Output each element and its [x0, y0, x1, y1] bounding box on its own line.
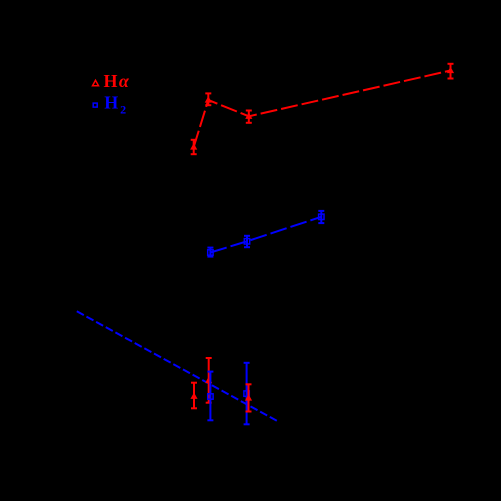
error bar: red point 3	[246, 111, 252, 123]
legend label: H-alpha	[104, 71, 130, 91]
marker: red filled triangle point 1	[191, 144, 197, 149]
error bar: blue point 1	[207, 248, 213, 257]
marker: red filled triangle lower A	[191, 393, 197, 398]
marker: red filled triangle point 4	[448, 68, 454, 73]
marker: red filled triangle point 2	[205, 97, 211, 102]
long blue dashed trend line (lower left)	[77, 311, 279, 422]
error bar: blue point 3	[318, 211, 324, 223]
legend label: H2	[104, 93, 126, 117]
marker: blue open square lower C	[208, 394, 213, 399]
error bar: blue point 2	[244, 236, 250, 247]
error bar: lower red point B	[206, 358, 212, 403]
svg-text:Hα: Hα	[104, 71, 130, 91]
legend marker: open square (H2)	[93, 103, 97, 107]
error bar: red point 4	[448, 64, 454, 79]
marker: blue open square point 2	[244, 239, 249, 244]
error bar: lower blue point C	[207, 372, 213, 421]
error bar: red point 2	[205, 93, 211, 105]
error bar: red point 1	[191, 140, 197, 154]
marker: blue open square lower D	[244, 391, 249, 396]
error bar: lower red point E	[246, 384, 252, 411]
legend marker: open triangle (Halpha)	[93, 80, 99, 85]
error bar: lower blue point D	[244, 363, 250, 425]
blue dashed line connecting H2 points	[210, 217, 321, 253]
marker: red filled triangle point 3	[246, 113, 252, 118]
marker: red filled triangle lower E	[246, 395, 252, 400]
marker: red filled triangle lower B	[206, 378, 212, 383]
marker: blue open square point 3	[319, 214, 324, 219]
red dashed line connecting Halpha points	[194, 71, 451, 148]
marker: blue open square point 1	[208, 250, 213, 255]
error bar: lower red point A	[191, 383, 197, 409]
